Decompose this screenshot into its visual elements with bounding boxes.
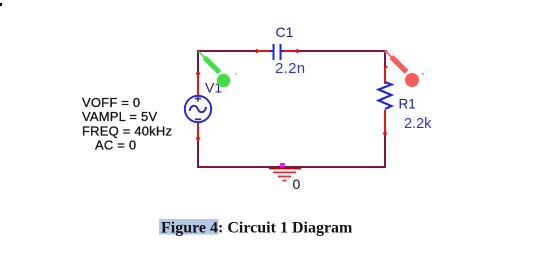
- wire right lower: [384, 135, 386, 168]
- svg-text:2.2n: 2.2n: [275, 60, 305, 77]
- source plus mark: [195, 96, 201, 102]
- probe green: [199, 52, 238, 88]
- svg-text:2.2k: 2.2k: [404, 116, 432, 132]
- source minus mark: [195, 118, 201, 120]
- resistor R1 pins: [383, 66, 388, 136]
- ground symbol: [269, 167, 301, 169]
- page edge mark: [0, 3, 2, 6]
- svg-text:VAMPL = 5V: VAMPL = 5V: [82, 109, 157, 124]
- wire top-left segment: [198, 50, 257, 52]
- wire left upper: [197, 50, 199, 73]
- svg-text:FREQ = 40kHz: FREQ = 40kHz: [82, 123, 172, 138]
- caption highlight: [159, 219, 219, 235]
- probe red: [384, 50, 424, 87]
- ground junction dot: [280, 163, 285, 168]
- svg-text:AC = 0: AC = 0: [95, 138, 136, 153]
- svg-text:0: 0: [293, 176, 301, 192]
- capacitor C1 plates: [270, 44, 284, 60]
- capacitor C1 pins: [256, 49, 298, 53]
- wire bottom: [197, 166, 386, 168]
- wire right upper: [384, 50, 386, 66]
- svg-text:VOFF = 0: VOFF = 0: [82, 95, 140, 110]
- svg-text:C1: C1: [276, 24, 294, 40]
- wire top-right segment: [297, 50, 386, 52]
- source V1 body: [185, 96, 211, 122]
- svg-text:R1: R1: [399, 96, 416, 111]
- svg-text:Figure 4: Circuit 1 Diagram: Figure 4: Circuit 1 Diagram: [161, 220, 353, 237]
- attribute text VOFF: [82, 95, 172, 153]
- source V1 pins: [196, 72, 200, 141]
- resistor R1 zigzag: [379, 82, 392, 109]
- wire left lower: [197, 140, 199, 168]
